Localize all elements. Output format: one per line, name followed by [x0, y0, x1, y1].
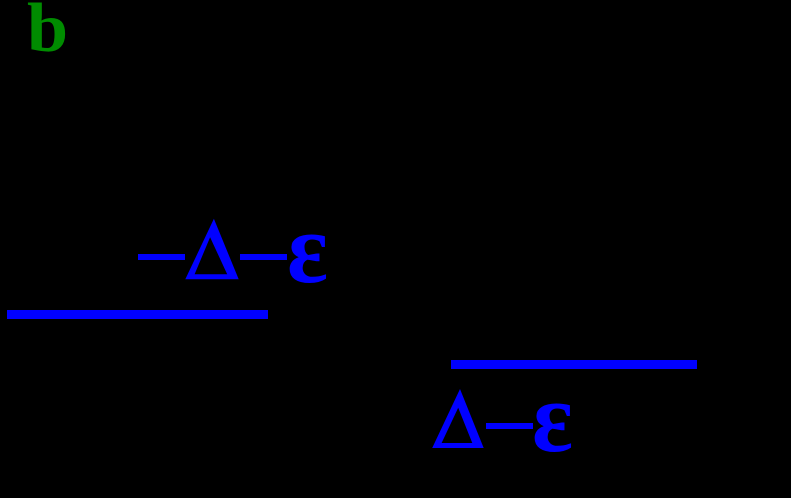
- lower energy level bar: [451, 360, 697, 369]
- upper label minus 2: [240, 254, 287, 260]
- upper label Delta (triangle): [180, 215, 245, 285]
- upper energy level bar: [7, 310, 268, 319]
- panel label b: [27, 0, 68, 64]
- lower label minus: [486, 423, 533, 429]
- upper label minus 1: [138, 254, 185, 260]
- lower label Delta (triangle): [427, 385, 492, 455]
- lower label epsilon: [532, 367, 573, 468]
- upper label epsilon: [287, 198, 328, 299]
